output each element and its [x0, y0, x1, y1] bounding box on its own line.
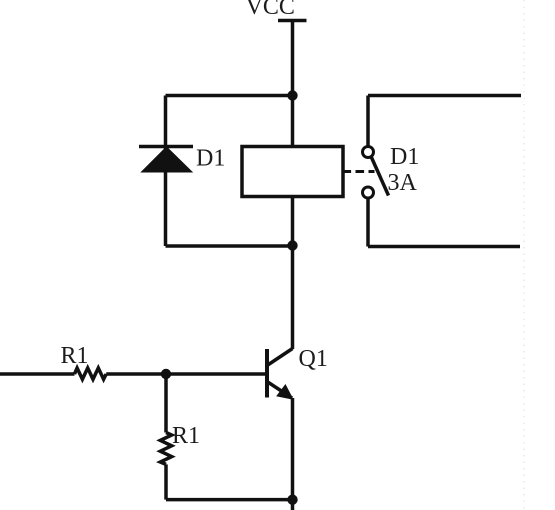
- relay coil: [242, 147, 343, 197]
- wire diode branch bottom: [166, 244, 293, 248]
- svg-text:D1: D1: [390, 144, 419, 170]
- svg-text:R1: R1: [172, 423, 200, 449]
- svg-text:Q1: Q1: [299, 346, 328, 372]
- relay contact bottom terminal: [363, 187, 374, 198]
- junction dot top node: [287, 90, 297, 100]
- junction dot emitter node: [287, 495, 297, 505]
- transistor Q1: [267, 349, 293, 399]
- svg-text:R1: R1: [61, 343, 89, 369]
- wire top node to relay coil: [291, 96, 295, 147]
- wire bottom rail: [166, 498, 293, 502]
- wire bottom right rail: [368, 245, 520, 249]
- VCC terminal bar: [278, 19, 307, 23]
- wire diode branch left vertical: [164, 96, 168, 247]
- resistor R1 base: [75, 368, 107, 379]
- wire base left: [0, 372, 75, 376]
- wire top right rail: [368, 94, 521, 98]
- wire contact top lead: [366, 96, 370, 147]
- svg-text:VCC: VCC: [246, 0, 295, 20]
- wire emitter vertical: [291, 398, 295, 510]
- wire top node to diode branch: [166, 94, 293, 98]
- resistor R1 pulldown: [160, 433, 171, 465]
- diode D1: [142, 147, 193, 172]
- junction dot base node: [161, 369, 171, 379]
- svg-text:D1: D1: [196, 146, 225, 172]
- wire base node down: [164, 374, 168, 433]
- wire VCC stem: [291, 21, 295, 96]
- svg-text:3A: 3A: [388, 170, 418, 196]
- faint scan edge (decorative): [523, 0, 525, 510]
- wire collector vertical: [291, 246, 295, 350]
- relay contact top terminal: [363, 147, 374, 158]
- wire resistor to base: [106, 372, 265, 376]
- dashed actuation link: [343, 170, 375, 173]
- relay contact blade: [372, 158, 389, 196]
- diode D1 cathode bar: [139, 145, 193, 149]
- wire pulldown to bottom rail: [164, 464, 168, 499]
- junction dot collector node: [287, 240, 297, 250]
- wire contact bottom lead: [366, 198, 370, 247]
- wire relay coil to collector node: [291, 197, 295, 246]
